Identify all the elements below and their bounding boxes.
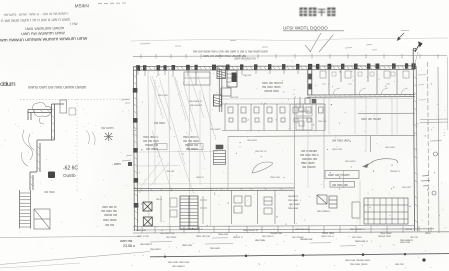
svg-text:i nw: i nw — [70, 21, 79, 26]
small stair mid x213-226 y150-165 — [214, 145, 226, 165]
svg-text:uw nw: uw nw — [402, 185, 411, 189]
svg-text:uw nw m: uw nw m — [255, 149, 267, 153]
door swing diagonals in big room — [150, 76, 216, 194]
interior grid verticals — [148, 71, 211, 226]
text cluster big room left — [143, 121, 199, 151]
svg-text:nwu uw nw: nwu uw nw — [196, 234, 211, 238]
svg-text:uw nwu nw: uw nwu nw — [295, 227, 310, 231]
svg-text:nwu uw: nwu uw — [218, 232, 229, 236]
svg-text:uwnw u: uwnw u — [233, 235, 243, 239]
faint column grid right wing — [308, 97, 397, 188]
svg-text:UFSI WIDTL DQOOO: UFSI WIDTL DQOOO — [283, 26, 328, 31]
svg-text:Ou8Ib: Ou8Ib — [63, 173, 76, 178]
svg-text:uw nwu: uw nwu — [158, 93, 168, 97]
note block top-left (upside-down scan text) — [0, 3, 90, 43]
svg-text:uw nwm: uw nwm — [186, 147, 198, 151]
room partitions below y190 — [232, 191, 295, 225]
dimension line y56 with ticks — [133, 54, 447, 59]
leader diagonals from subtitle to wall — [305, 33, 333, 52]
stair/elevator dark cluster near top wall — [217, 66, 237, 96]
text cluster mid room — [262, 81, 283, 93]
label boxes in big room — [154, 144, 203, 150]
faint ground curve bottom-left — [0, 252, 150, 265]
faint line under strip — [222, 97, 415, 100]
lobby box — [184, 72, 210, 85]
top wall hatching — [135, 66, 414, 70]
svg-text:uw nw: uw nw — [105, 223, 115, 227]
hatches on left structure walls — [30, 108, 55, 186]
sparse dashes above wall right part — [345, 48, 418, 63]
svg-text:uw nwu uwn: uw nwu uwn — [332, 139, 350, 143]
svg-text:MSIbN: MSIbN — [75, 3, 89, 8]
svg-text:uw nwu n: uw nwu n — [140, 242, 153, 246]
swoosh left — [252, 162, 273, 173]
svg-text:nwm uw u: nwm uw u — [321, 234, 334, 238]
column boxes with X — [143, 202, 152, 226]
column stubs below top wall — [138, 70, 298, 77]
marks below corridor wall — [300, 97, 316, 108]
right edge faint vertical — [447, 57, 449, 130]
extra bottom segments — [150, 238, 356, 246]
dark block on x220 wall — [214, 95, 222, 106]
svg-text:nw uwu n: nw uwu n — [262, 234, 274, 238]
svg-text:uw n: uw n — [156, 197, 162, 201]
svg-text:uw nw: uw nw — [243, 73, 252, 77]
svg-text:nw uwu nwm: nw uwu nwm — [350, 262, 368, 266]
svg-text:uwn uw: uwn uw — [332, 147, 343, 151]
svg-text:uw nwu: uw nwu — [300, 109, 310, 113]
site boundary line with dots — [150, 253, 449, 262]
svg-text:uw nwum: uw nwum — [302, 165, 316, 169]
corridor wall y96 — [307, 94, 415, 97]
svg-text:nw uwm: nw uwm — [150, 247, 161, 251]
cluster x288-306 y193-212 — [288, 194, 301, 210]
svg-text:uwn nw: uwn nw — [120, 239, 133, 243]
left structure: plant blob — [33, 103, 51, 125]
corridor partitions — [320, 69, 409, 95]
svg-text:uw nwu uw: uw nwu uw — [332, 183, 348, 187]
svg-text:nwuw uwn: nwuw uwn — [378, 234, 392, 238]
svg-text:uwnw uwu: uwnw uwu — [264, 89, 279, 93]
dashed rule top-left — [98, 2, 126, 5]
svg-text:uw nwu: uw nwu — [352, 235, 362, 239]
svg-text:uwn u nw: uwn u nw — [137, 234, 150, 238]
svg-text:nw uwum: nw uwum — [190, 103, 203, 107]
svg-text:uw nw: uw nw — [410, 235, 419, 239]
svg-text:-62 6C: -62 6C — [63, 166, 78, 172]
subtitle line under title — [283, 26, 346, 33]
right rooms lines — [228, 99, 415, 188]
label box 1 — [325, 171, 359, 179]
elevator shaft x308-318 — [308, 69, 312, 95]
svg-text:nw uw: nw uw — [166, 169, 175, 173]
svg-text:uw nwu: uw nwu — [154, 121, 165, 125]
scan speckle noise — [1, 60, 445, 268]
texts below boundary — [168, 240, 411, 268]
svg-text:nw uwu: nw uwu — [210, 246, 220, 250]
corridor wall hatching — [309, 94, 411, 97]
curve marks near tree — [86, 130, 95, 145]
svg-text:uw nwm: uw nwm — [166, 235, 177, 239]
svg-text:nwu uw: nwu uw — [288, 206, 299, 210]
bathroom fixtures — [228, 107, 323, 122]
svg-text:uwnw uw n: uwnw uw n — [188, 227, 203, 231]
svg-text:uw nwum u: uw nwum u — [243, 228, 258, 232]
svg-text:uwn uwnwu nw: uwn uwnwu nw — [234, 57, 256, 61]
left structure walls — [28, 104, 64, 190]
svg-text:uw nwuw u: uw nwuw u — [350, 227, 365, 231]
svg-text:nw uw: nw uw — [318, 119, 327, 123]
faint vertical x360 — [359, 180, 361, 225]
escalator cluster right x364-408 — [352, 198, 408, 224]
svg-text:uwn nw wuwnm umw: uwn nw wuwnm umw — [21, 30, 65, 36]
dotted vertical — [76, 99, 78, 190]
furniture bottom-left rooms — [234, 196, 272, 214]
faint extra lines big room — [137, 80, 218, 188]
faint long wavy line across upper area — [131, 38, 448, 41]
left structure: dotted guide — [20, 98, 132, 101]
svg-text:nwuw u: nwuw u — [390, 169, 400, 173]
bathroom strip — [222, 104, 325, 131]
svg-text:uwn uw: uwn uw — [136, 228, 147, 232]
outer verticals right — [420, 62, 448, 233]
left structure: landscape loops — [22, 130, 34, 166]
svg-text:uw nw: uw nw — [230, 95, 239, 99]
svg-text:.: . — [345, 28, 346, 32]
central vertical x294 — [294, 97, 296, 189]
svg-text:nwu uwm: nwu uwm — [103, 218, 117, 222]
svg-text:uw nw: uw nw — [395, 262, 404, 266]
title block (bold blurred glyphs) — [300, 8, 336, 17]
svg-text:nw uwu: nw uwu — [247, 138, 257, 142]
svg-text:uw nwu: uw nwu — [255, 238, 266, 242]
x220 interior wall — [219, 69, 222, 112]
svg-text:23.56 u: 23.56 u — [123, 244, 135, 248]
tall narrow rect top of left structure — [60, 100, 67, 113]
interior scatter annotations — [158, 73, 411, 189]
svg-text:uwnw: uwnw — [405, 227, 413, 231]
svg-text:uwnw uw: uwnw uw — [104, 213, 118, 217]
label box 2 — [330, 182, 355, 188]
svg-text:uwn uw: uwn uw — [182, 243, 193, 247]
svg-text:nwu uw: nwu uw — [270, 175, 281, 179]
box right of ladder — [34, 209, 50, 229]
svg-text:nw uw wuw nw u nw uw uwn n u: nw uw wuw nw u nw uw uwn n uw u nw wum u… — [193, 50, 268, 54]
svg-text:uw nwum: uw nwum — [317, 209, 330, 213]
svg-text:uwn uw nwum: uwn uw nwum — [361, 117, 382, 121]
north mark — [413, 42, 422, 52]
bottom band lines — [0, 226, 449, 238]
svg-text:uw nwm: uw nwm — [146, 147, 158, 151]
dark text 23.56 — [120, 239, 135, 248]
cluster x316-340 y193-213 — [317, 195, 337, 208]
svg-text:uw nwu: uw nwu — [44, 190, 55, 194]
rooms bottom-left wall y189 — [134, 188, 295, 191]
annotation text rows above top wall — [193, 50, 268, 61]
svg-text:nw uwm: nw uwm — [345, 159, 356, 163]
svg-text:nw uwm: nw uwm — [101, 126, 114, 130]
right wall vertical — [413, 49, 418, 231]
bottom band annotation blobs — [136, 227, 431, 236]
wall hatches y189 — [140, 188, 283, 191]
scattered small marks above dim line — [140, 30, 409, 47]
left wall vertical — [133, 67, 139, 232]
small rooms right of x294 — [296, 97, 324, 188]
top wall (double line with columns) — [133, 63, 416, 70]
svg-text:uwn uw n: uwn uw n — [355, 239, 368, 243]
svg-text:uw nwu: uw nwu — [385, 145, 395, 149]
svg-text:uwn uw nwum: uwn uw nwum — [328, 173, 350, 177]
svg-text:nw uwm: nw uwm — [210, 127, 221, 131]
center text block — [300, 149, 319, 169]
stair surround clutter — [161, 196, 207, 224]
svg-text:uwnu uwn uw nwu uwnw uwum: uwnu uwn uw nwu uwnw uwum — [28, 85, 87, 90]
svg-text:oblum: oblum — [0, 81, 16, 88]
swoosh right with arrow — [363, 159, 397, 168]
stair block bottom-left — [180, 196, 198, 229]
marks left of wall — [121, 100, 132, 161]
tree asterisk — [104, 132, 113, 141]
bottom band ticks — [142, 226, 431, 233]
tick rows near right wall — [418, 75, 426, 100]
travel distance note — [101, 205, 118, 227]
svg-text:nw uwum: nw uwum — [172, 264, 185, 268]
svg-text:uwn: uwn — [114, 162, 121, 166]
svg-text:uwn uw: uwn uw — [400, 240, 411, 244]
ladder stair left — [20, 190, 31, 229]
leader arrow right — [397, 33, 404, 40]
svg-text:nw u: nw u — [425, 231, 431, 235]
svg-text:uw nwuw: uw nwuw — [292, 235, 304, 239]
dark blob — [48, 172, 55, 179]
faint line above y189 wall — [137, 182, 294, 185]
right side symbols — [421, 152, 438, 195]
